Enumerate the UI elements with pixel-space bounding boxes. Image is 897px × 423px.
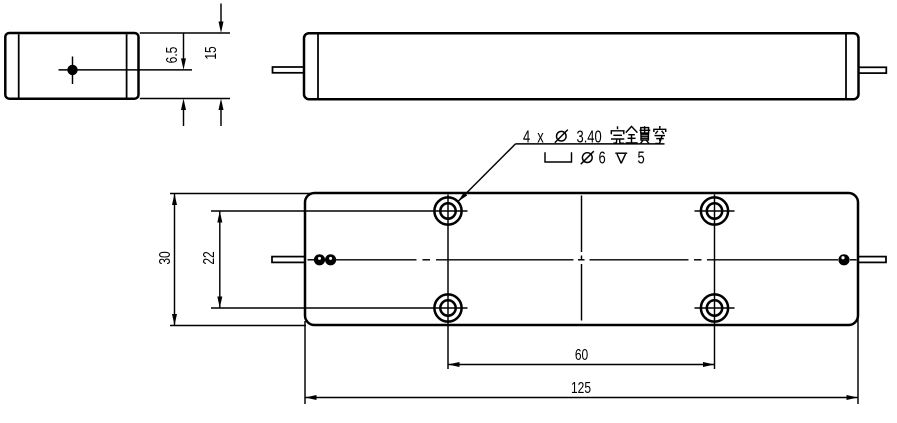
dimension 125 arrow left [305,395,317,400]
svg-text:4: 4 [523,128,531,147]
leader underline [516,143,665,145]
svg-text:60: 60 [575,345,588,363]
counterbore symbol [545,152,572,162]
dimension 15 lower stem [220,108,222,126]
plan view left fiber pin [272,257,305,263]
end view left end-cap line [18,34,20,97]
chinese 完 [611,126,624,143]
dimension 30 line [174,194,176,326]
side view right end-cap line [845,35,847,99]
dimension 6.5 upper stem [183,33,185,60]
extension line top edge [140,32,230,34]
svg-text:3.40: 3.40 [577,128,602,147]
end view fiber hole (filled) [67,65,77,75]
dimension 60 line [448,364,715,366]
chinese 穿 [654,126,666,144]
dimension 60 arrow left [448,362,460,367]
dimension 22 extension bottom [211,307,468,309]
dimension 125 extension left [304,321,306,404]
dimension 6.5 upper arrow (down) [181,58,186,70]
end view hole horizontal centerline [59,69,193,71]
dimension 22 line [219,211,221,308]
leader line [458,144,516,202]
svg-text:15: 15 [201,46,219,59]
chinese 贯 [640,126,651,143]
plan view right ferrule dot [838,254,849,265]
end view hole vertical centerline [72,57,74,85]
hole C through hole [440,300,455,315]
hole A (top-left) counterbore [434,197,461,224]
dimension 6.5 lower arrow (up) [181,99,186,111]
plan view body outline [305,193,858,325]
end view right end-cap line [126,34,128,97]
leader arrowhead [458,192,468,202]
hole B (top-right) counterbore [701,197,728,224]
dimension 22 arrow top [217,211,222,223]
dimension 60 arrow right [703,362,715,367]
horizontal centerline (chain) [308,259,315,261]
svg-text:30: 30 [155,251,173,264]
svg-text:x: x [537,128,544,147]
svg-text:22: 22 [199,251,217,264]
svg-text:125: 125 [571,378,591,396]
dimension 125 line [305,397,858,399]
svg-text:6.5: 6.5 [162,47,180,64]
side view body outline [304,33,859,99]
dimension 15 lower arrow (up) [219,99,224,111]
dimension 22 arrow bottom [217,297,222,309]
dimension 125 extension right [857,318,859,404]
hole B horizontal centerline [695,210,735,212]
dimension 30 arrow bottom [172,314,177,326]
dimension 30 extension bottom [170,325,306,327]
dimension 15 upper arrow (down) [219,22,224,34]
hole D (bottom-right) counterbore [701,294,728,321]
hole D through hole [707,300,722,315]
dimension 15 upper stem [220,4,222,24]
hole C (bottom-left) counterbore [434,294,461,321]
chinese 全 [626,126,638,142]
end view body outline [5,33,138,99]
callout diameter symbol 1 [557,131,567,141]
hole B through hole [707,203,722,218]
hole D horizontal centerline [695,307,735,309]
plan view left ferrule dot 2 [325,254,336,265]
side view left fiber pin [273,67,305,73]
dimension 30 extension top [170,193,311,195]
svg-text:6: 6 [599,149,606,168]
hole column left vertical centerline [447,195,449,370]
dimension 125 arrow right [847,395,859,400]
hole column right vertical centerline [714,195,716,370]
dimension 30 arrow top [172,194,177,206]
extension line bottom edge [140,98,230,100]
depth symbol [615,152,627,154]
dimension 22 extension top [211,210,468,212]
svg-text:5: 5 [638,149,645,168]
callout diameter symbol 2 [582,153,592,163]
hole A through hole [440,203,455,218]
plan view right fiber pin [858,257,886,263]
side view right fiber pin [859,67,887,73]
side view left end-cap line [317,35,319,99]
dimension 6.5 lower stem [183,108,185,126]
plan view left ferrule dot 1 [314,254,325,265]
vertical mid centerline (chain) [581,196,583,253]
